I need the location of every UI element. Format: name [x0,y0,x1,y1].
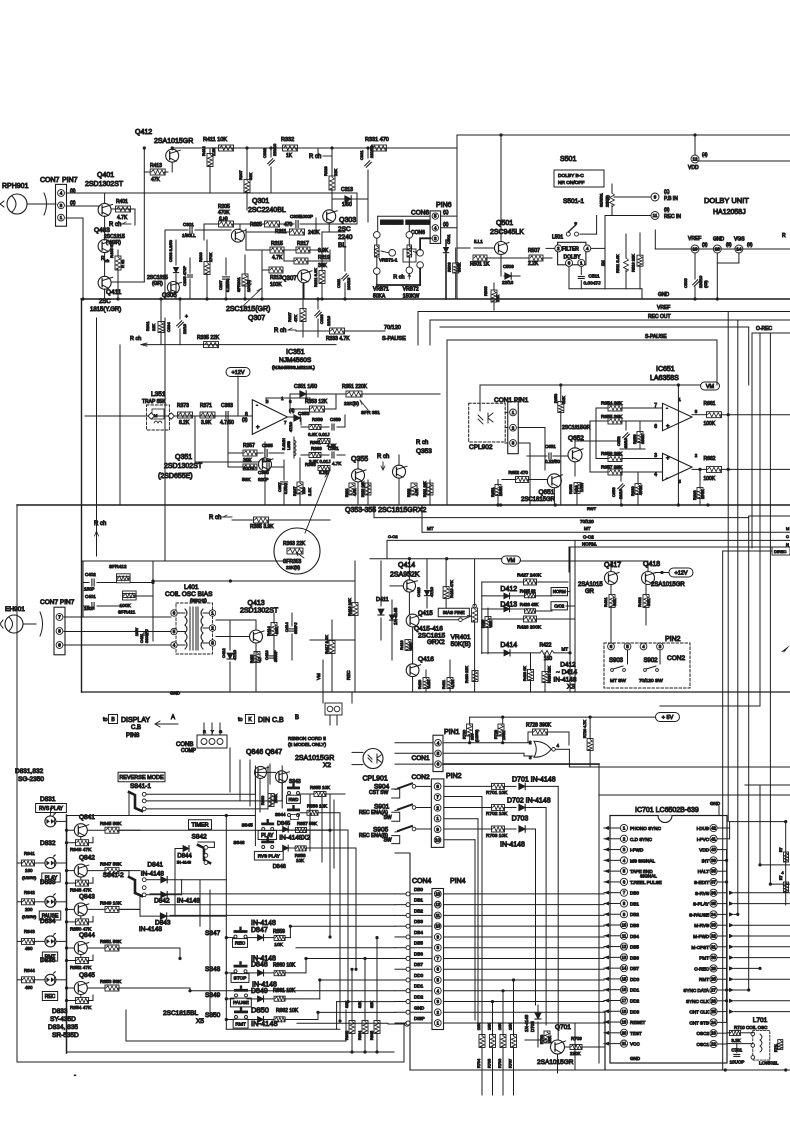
svg-text:REC OUT: REC OUT [648,314,671,320]
svg-text:M: M [786,526,789,531]
svg-text:L401: L401 [184,584,199,591]
svg-text:R363 22K: R363 22K [283,541,306,547]
svg-text:C305 470P: C305 470P [182,266,187,286]
svg-text:CST SW: CST SW [369,790,389,796]
svg-text:SR-535D: SR-535D [52,1032,79,1039]
svg-text:27: 27 [711,988,716,993]
svg-text:150P: 150P [84,606,95,611]
svg-text:(2): (2) [70,200,76,205]
svg-text:CPL901: CPL901 [363,776,388,783]
svg-text:R426 43K: R426 43K [520,602,539,607]
svg-text:R ch: R ch [109,222,121,228]
svg-text:R843: R843 [24,929,35,934]
svg-text:R307: R307 [238,170,243,180]
svg-text:Q414: Q414 [398,562,415,569]
svg-text:CNT STB: CNT STB [689,1020,709,1025]
svg-text:R428 200K: R428 200K [517,625,542,631]
svg-text:Q355: Q355 [351,456,368,463]
svg-text:M-CPST: M-CPST [691,945,709,950]
svg-text:REC IN: REC IN [664,214,681,220]
svg-text:R702 10K: R702 10K [486,811,508,817]
svg-text:4: 4 [654,472,657,478]
svg-text:R317: R317 [297,241,309,247]
svg-text:S848: S848 [205,966,221,973]
svg-text:C505: C505 [683,278,688,288]
svg-text:D832: D832 [40,840,56,847]
svg-text:R651: R651 [490,487,495,497]
svg-text:R853 56K: R853 56K [100,979,122,985]
svg-text:25: 25 [711,1009,716,1014]
svg-text:R701 10K: R701 10K [486,790,508,796]
svg-text:Q416: Q416 [418,656,434,663]
svg-text:100K: 100K [498,486,503,496]
svg-text:24: 24 [711,1020,716,1025]
svg-text:BIAS FINE: BIAS FINE [443,610,465,615]
svg-text:VDD: VDD [688,165,699,171]
svg-text:R662: R662 [704,456,716,462]
svg-text:to: to [238,717,243,723]
svg-text:COIL OSC BIAS: COIL OSC BIAS [165,591,213,598]
svg-text:CNT CLK: CNT CLK [689,1010,710,1015]
svg-text:30: 30 [711,955,716,960]
svg-text:C415: C415 [416,587,421,597]
svg-text:220K: 220K [570,1051,581,1056]
svg-text:6.8K 0.01J: 6.8K 0.01J [308,432,330,437]
svg-text:D833: D833 [40,879,56,886]
svg-text:IN-4148: IN-4148 [139,926,163,933]
svg-text:Q843: Q843 [79,893,95,900]
svg-text:SW: SW [384,838,392,844]
svg-text:PIN4: PIN4 [450,878,466,885]
svg-text:C361: C361 [328,446,339,451]
svg-text:DD1: DD1 [414,984,424,989]
svg-text:2SD1302ST: 2SD1302ST [240,608,279,615]
svg-text:12: 12 [435,902,440,907]
svg-text:22K: 22K [495,295,500,302]
svg-text:2.2K: 2.2K [307,487,312,496]
svg-text:PIN7: PIN7 [62,177,78,184]
svg-text:CON7 PIN7: CON7 PIN7 [40,599,75,606]
svg-text:R704: R704 [477,1059,481,1068]
svg-text:23: 23 [711,1031,716,1036]
svg-text:DB5: DB5 [414,941,423,946]
svg-text:R414: R414 [266,626,271,636]
svg-text:70/120: 70/120 [384,325,401,331]
svg-text:R663: R663 [692,490,697,500]
svg-text:R862 10K: R862 10K [276,1008,299,1014]
svg-text:I-PVC: I-PVC [697,837,710,842]
svg-text:TRAP 85K: TRAP 85K [142,399,166,405]
svg-text:21: 21 [622,1041,627,1046]
svg-text:(2SD655E): (2SD655E) [158,473,193,480]
svg-text:35: 35 [711,901,716,906]
svg-text:A: A [171,715,175,721]
svg-text:IN-4148: IN-4148 [177,898,201,905]
svg-text:D841: D841 [147,862,163,869]
svg-text:S844: S844 [275,812,286,817]
svg-text:2SC1815GR: 2SC1815GR [562,425,591,431]
svg-text:C334: C334 [166,322,171,332]
svg-text:RESET: RESET [630,1020,646,1025]
svg-text:R319: R319 [318,255,330,261]
svg-text:R854 47K: R854 47K [70,1005,92,1011]
svg-text:R730: R730 [463,730,467,739]
svg-text:S842: S842 [192,834,208,841]
svg-text:R852 47K: R852 47K [70,965,92,971]
svg-text:490: 490 [25,985,33,990]
svg-text:R ch: R ch [94,521,106,527]
svg-text:56K: 56K [242,477,251,483]
svg-text:INT: INT [702,858,710,863]
svg-text:C353: C353 [298,411,310,417]
svg-text:IN-4148: IN-4148 [251,920,276,927]
svg-text:Q413: Q413 [248,600,265,607]
svg-text:16: 16 [622,987,627,992]
svg-text:R707: R707 [509,1059,513,1068]
svg-text:R857 56K: R857 56K [297,821,317,826]
svg-text:S841-1: S841-1 [130,783,151,790]
svg-text:2.2K: 2.2K [528,261,539,267]
svg-text:2SC1815(GR): 2SC1815(GR) [226,306,270,313]
svg-text:G: G [219,729,222,734]
svg-text:R: R [782,233,786,239]
svg-text:DD3: DD3 [630,1009,640,1014]
svg-text:R371: R371 [200,403,212,409]
svg-text:SIGNAL: SIGNAL [640,874,657,879]
svg-text:C301: C301 [183,222,194,227]
svg-text:IN-4148: IN-4148 [500,842,525,849]
svg-text:R422: R422 [540,642,552,648]
svg-text:HA12058J: HA12058J [713,209,746,216]
svg-text:3.9K: 3.9K [201,420,212,426]
svg-text:C653: C653 [611,487,616,497]
svg-text:4.7: 4.7 [258,657,262,662]
svg-text:+12V: +12V [232,370,245,376]
svg-text:D413: D413 [500,602,517,609]
svg-text:70/120: 70/120 [580,519,594,524]
svg-text:R331 470: R331 470 [365,137,389,143]
svg-text:S903: S903 [609,658,624,664]
svg-text:R424 22K: R424 22K [548,666,552,683]
svg-text:+12V: +12V [675,570,688,576]
svg-text:29: 29 [711,966,716,971]
svg-text:X5: X5 [196,1018,204,1025]
svg-text:R430 22K: R430 22K [465,666,469,683]
svg-text:R403 470: R403 470 [109,240,114,258]
svg-text:R865: R865 [370,1031,374,1040]
svg-text:CON6: CON6 [411,230,425,236]
svg-text:+ 5V: + 5V [662,715,674,721]
svg-text:11: 11 [622,933,627,938]
svg-text:10: 10 [435,838,441,843]
svg-text:VGS: VGS [734,237,745,243]
svg-text:R401: R401 [116,199,128,205]
svg-text:REVERSE MODE: REVERSE MODE [119,775,164,781]
svg-text:M-FWD: M-FWD [693,934,709,939]
svg-text:REC: REC [346,670,351,680]
svg-text:R ch: R ch [309,154,321,160]
svg-text:CON6: CON6 [411,210,429,217]
svg-text:(3): (3) [70,188,76,193]
svg-text:R321 3.9K: R321 3.9K [313,268,318,287]
svg-text:D705: D705 [530,1021,535,1032]
svg-text:R351 220K: R351 220K [342,384,368,390]
svg-text:26: 26 [711,998,716,1003]
svg-text:D842: D842 [154,898,170,905]
svg-text:(5): (5) [726,242,732,247]
svg-text:390K: 390K [457,262,462,272]
svg-text:R703 10K: R703 10K [486,833,508,839]
svg-text:Q351: Q351 [175,454,192,461]
svg-text:DB3: DB3 [630,923,639,928]
svg-text:C313: C313 [341,187,353,193]
svg-text:R415: R415 [250,655,254,663]
svg-text:2SC: 2SC [99,299,111,305]
svg-text:39: 39 [711,858,716,863]
svg-text:R385 3.9K: R385 3.9K [250,524,274,530]
svg-text:DB7: DB7 [414,962,423,967]
svg-text:C511: C511 [588,274,599,280]
svg-text:R423 1K: R423 1K [523,666,527,681]
svg-text:5.6K: 5.6K [562,396,566,404]
svg-text:S-PAUSE: S-PAUSE [382,336,406,342]
svg-text:Q845: Q845 [79,972,95,979]
svg-text:R706: R706 [498,1059,502,1068]
svg-text:R ch: R ch [120,260,125,268]
svg-text:100K: 100K [270,282,282,288]
svg-text:0.22/50: 0.22/50 [545,459,561,464]
svg-text:PHONO SYNC: PHONO SYNC [630,826,662,831]
svg-text:13: 13 [435,891,440,896]
svg-text:R412: R412 [201,146,206,156]
svg-text:R652 470: R652 470 [508,470,528,475]
svg-text:Q846 Q847: Q846 Q847 [246,749,282,756]
svg-text:S-PAUSE: S-PAUSE [689,912,709,917]
svg-text:(NJM4558S.M5218L): (NJM4558S.M5218L) [272,365,315,370]
svg-text:39K: 39K [318,263,328,269]
svg-text:VREF: VREF [688,236,701,242]
svg-text:D412: D412 [560,662,576,669]
svg-text:RWD: RWD [289,797,299,802]
svg-text:2SA1015: 2SA1015 [578,582,603,588]
svg-text:1/2W: 1/2W [579,482,584,492]
svg-text:R363: R363 [311,446,322,451]
svg-text:R654 39K: R654 39K [601,401,623,407]
svg-text:D414: D414 [500,642,517,649]
svg-text:C359: C359 [330,417,341,422]
svg-text:VM: VM [507,558,516,564]
svg-text:C-O2: C-O2 [583,535,594,540]
svg-text:R661: R661 [704,401,716,407]
svg-text:100K: 100K [274,794,278,803]
svg-text:100K: 100K [704,476,716,482]
svg-text:R711: R711 [774,1044,778,1052]
svg-text:DD0: DD0 [414,973,424,978]
svg-text:D411: D411 [376,597,389,603]
svg-text:SY-435D: SY-435D [50,1016,76,1023]
svg-text:(2): (2) [242,417,248,422]
svg-text:PIN2: PIN2 [665,636,681,643]
svg-text:R373: R373 [177,403,189,409]
svg-text:2SA1015GR: 2SA1015GR [295,755,334,762]
svg-text:PIN1: PIN1 [444,729,460,736]
svg-text:2SA1015GR: 2SA1015GR [651,582,685,588]
svg-text:DD2: DD2 [630,998,640,1003]
svg-text:42: 42 [711,826,716,831]
svg-text:B: B [295,715,299,721]
svg-text:SFR 351: SFR 351 [361,410,380,416]
svg-text:39K: 39K [243,458,253,464]
svg-text:O-REC: O-REC [756,326,773,332]
svg-text:34: 34 [711,912,716,917]
svg-text:I-DUB: I-DUB [696,826,709,831]
svg-text:GND: GND [658,292,670,298]
svg-text:MT: MT [562,647,569,652]
svg-text:RMT: RMT [235,1021,245,1027]
svg-text:10K: 10K [274,942,283,948]
svg-text:RPH901: RPH901 [2,183,29,190]
svg-text:C401: C401 [85,594,96,599]
svg-text:-: - [74,1073,76,1079]
svg-text:220: 220 [301,487,306,494]
svg-text:Q301: Q301 [252,198,269,205]
svg-text:S902: S902 [644,658,659,664]
svg-text:R846 47K: R846 47K [70,847,92,853]
svg-text:C-O2: C-O2 [388,534,398,539]
svg-text:IC651: IC651 [656,366,675,373]
svg-text:18K: 18K [489,620,493,627]
svg-text:R860 10K: R860 10K [273,963,296,969]
svg-text:47/10: 47/10 [232,649,237,660]
svg-text:R705: R705 [488,1059,492,1068]
svg-text:150P: 150P [84,587,95,592]
svg-text:R851 56K: R851 56K [100,939,122,945]
svg-text:S1R501: S1R501 [600,193,604,207]
svg-text:R333 4.7K: R333 4.7K [326,336,350,342]
svg-text:39K: 39K [248,173,253,180]
svg-text:(2): (2) [443,222,449,227]
svg-text:C414: C414 [284,622,289,632]
svg-text:R313: R313 [270,275,282,281]
svg-text:R841: R841 [24,851,35,856]
svg-text:NORM: NORM [553,589,566,594]
svg-text:Q418: Q418 [643,561,660,568]
svg-text:8.2K: 8.2K [179,420,190,426]
svg-text:R842: R842 [24,890,35,895]
svg-text:20: 20 [622,1030,627,1035]
svg-text:Q701: Q701 [555,1024,571,1031]
svg-text:DB6: DB6 [630,955,639,960]
svg-text:C311: C311 [336,278,341,288]
svg-text:R381 10K: R381 10K [423,481,427,497]
svg-text:-: - [256,403,258,409]
svg-text:(2): (2) [702,242,708,247]
svg-text:P.B IN: P.B IN [664,196,678,202]
svg-text:17: 17 [622,998,627,1003]
svg-text:VM: VM [316,673,321,680]
svg-text:R513 22K: R513 22K [631,254,636,272]
svg-text:R382: R382 [407,489,411,497]
svg-text:C303 3.3/50: C303 3.3/50 [168,239,173,262]
svg-text:GND: GND [170,691,181,696]
svg-text:470K: 470K [638,485,643,495]
svg-text:MS SIGNAL: MS SIGNAL [630,858,655,863]
svg-text:2SC945LK: 2SC945LK [490,229,524,236]
svg-text:R359: R359 [312,417,323,422]
svg-text:240K: 240K [308,230,320,236]
svg-text:DOLBY: DOLBY [564,255,582,261]
svg-text:5.6MH: 5.6MH [281,438,286,450]
svg-text:470: 470 [284,222,293,228]
svg-text:10K: 10K [296,858,304,863]
svg-text:D701 IN-4148: D701 IN-4148 [512,777,556,784]
svg-text:SFR411: SFR411 [118,610,136,616]
svg-text:to: to [103,717,108,723]
svg-text:S501: S501 [560,156,576,163]
svg-text:40: 40 [711,847,716,852]
svg-text:C503: C503 [503,264,514,269]
svg-text:D702 IN-4148: D702 IN-4148 [507,798,551,805]
svg-text:R728 390K: R728 390K [526,723,552,729]
svg-text:S841-2: S841-2 [103,872,124,879]
svg-text:D849: D849 [251,988,268,995]
svg-text:SG-2350: SG-2350 [18,776,44,783]
svg-text:DB1: DB1 [414,898,423,903]
svg-text:IC351: IC351 [286,349,305,356]
svg-text:CrO2: CrO2 [554,603,565,608]
svg-text:4.7K: 4.7K [415,488,419,496]
svg-text:D834: D834 [40,918,56,925]
svg-text:R425 82: R425 82 [520,589,537,594]
svg-text:Q303: Q303 [339,217,356,224]
svg-text:100K: 100K [704,421,716,427]
svg-text:R7: R7 [779,847,783,852]
svg-text:R427 240K: R427 240K [517,573,542,579]
svg-text:2SD1302ST: 2SD1302ST [85,181,124,188]
svg-text:HALT: HALT [698,869,710,874]
svg-text:N: N [786,542,789,547]
svg-text:2SC2240BL: 2SC2240BL [248,207,286,214]
svg-text:R657 39K: R657 39K [601,465,623,471]
svg-text:IN-4148: IN-4148 [251,1019,278,1028]
svg-text:56K: 56K [646,599,651,606]
svg-text:Q305: Q305 [162,293,177,299]
svg-text:C307: C307 [218,280,223,290]
svg-text:D703: D703 [512,816,529,823]
svg-text:R325: R325 [250,222,262,228]
svg-text:33: 33 [711,923,716,928]
svg-text:C651: C651 [545,444,556,449]
svg-text:D834, 835: D834, 835 [48,1024,78,1031]
svg-text:MT SW: MT SW [610,678,626,684]
svg-text:12: 12 [622,944,627,949]
svg-text:DOLBY UNIT: DOLBY UNIT [704,196,749,205]
svg-text:~ D414: ~ D414 [556,669,578,676]
svg-text:Q844: Q844 [79,932,95,939]
svg-text:14: 14 [622,966,627,971]
svg-text:DB3: DB3 [414,919,423,924]
svg-text:DD2: DD2 [414,995,424,1000]
svg-text:22K(B): 22K(B) [606,194,610,207]
svg-text:S849: S849 [205,992,221,999]
svg-text:R507: R507 [528,248,540,254]
svg-text:270K: 270K [700,489,705,499]
svg-text:200: 200 [25,907,33,912]
svg-text:R411 10K: R411 10K [203,137,227,143]
svg-text:4.7K: 4.7K [353,488,357,496]
svg-text:L351: L351 [151,391,166,398]
svg-text:R ch: R ch [209,515,221,521]
